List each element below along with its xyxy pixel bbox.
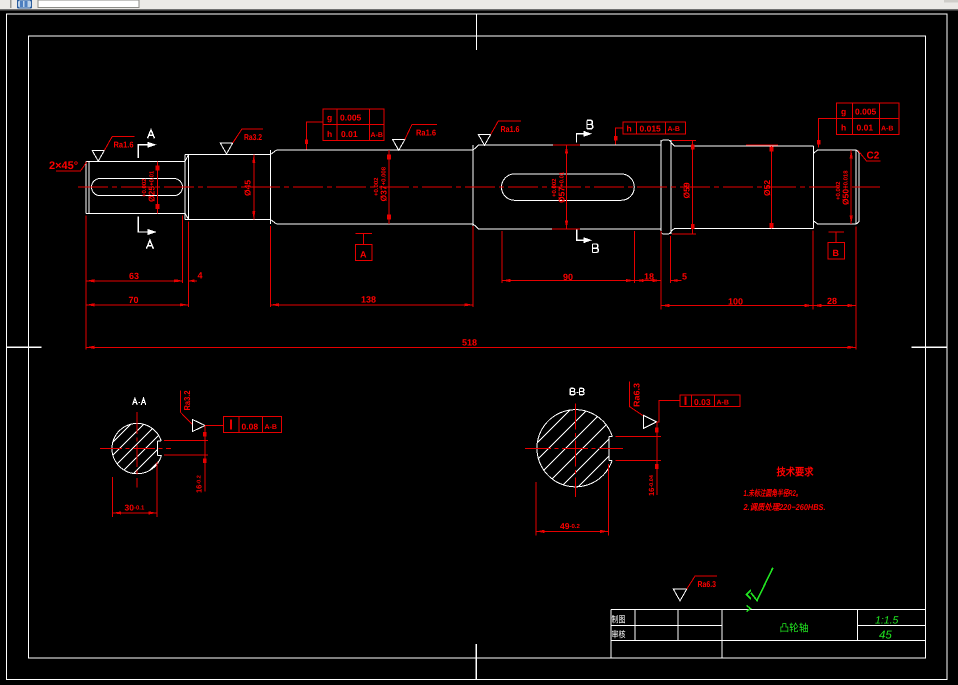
dim 90	[502, 272, 634, 282]
svg-text:g: g	[327, 113, 332, 123]
dim 138	[270, 295, 473, 307]
A-A keyway dim 16	[164, 426, 208, 493]
svg-text:凸轮轴: 凸轮轴	[780, 623, 809, 635]
svg-text:Ra6.3: Ra6.3	[632, 383, 642, 407]
svg-text:70: 70	[129, 295, 139, 305]
svg-text:Ø59: Ø59	[682, 182, 692, 198]
roughness Ra1.6 on S1	[92, 137, 134, 162]
roughness Ra1.6 on S4	[478, 121, 521, 145]
cutting plane A upper	[138, 130, 156, 158]
svg-text:A: A	[360, 250, 367, 260]
centering tick left	[7, 346, 42, 348]
svg-text:A-B: A-B	[881, 126, 893, 133]
shaft step face S2/S3	[269, 150, 271, 224]
dia dim S2 Ø45	[243, 155, 256, 220]
svg-text:100: 100	[728, 297, 743, 307]
dia dim S5	[746, 145, 778, 228]
svg-text:2.调质处理220−260HBS.: 2.调质处理220−260HBS.	[743, 502, 826, 512]
svg-text:0.005: 0.005	[855, 107, 877, 117]
svg-text:A-B: A-B	[717, 400, 729, 407]
svg-text:28: 28	[827, 296, 837, 306]
shaft section S4 outline	[473, 145, 661, 229]
dim 100	[661, 297, 813, 308]
svg-text:制图: 制图	[612, 614, 626, 624]
svg-text:Ra1.6: Ra1.6	[114, 140, 134, 150]
feature frame F1 (g/h top-left)	[305, 109, 384, 150]
green check mark	[747, 569, 773, 601]
chamfer label 2x45	[49, 160, 87, 172]
svg-text:18: 18	[644, 272, 654, 282]
toolbar input box	[38, 0, 139, 8]
svg-text:h: h	[327, 129, 332, 139]
svg-text:16-0.2: 16-0.2	[195, 475, 204, 493]
svg-text:Ra6.3: Ra6.3	[698, 579, 717, 589]
toolbar table icon	[18, 0, 32, 8]
roughness Ra3.2 on S2	[220, 129, 263, 154]
centering tick bottom	[475, 644, 477, 680]
svg-text:0.01: 0.01	[341, 129, 358, 139]
feature frame F2 (h 0.015 A-B)	[614, 122, 686, 145]
roughness Ra6.3 at B-B keyway (rotated)	[630, 382, 657, 429]
svg-text:B: B	[833, 248, 840, 258]
svg-text:h: h	[627, 123, 632, 133]
shaft step face S1/S2	[184, 155, 186, 220]
B-B centerline vertical	[575, 404, 577, 497]
shaft section S6 outline	[814, 150, 860, 224]
svg-text:138: 138	[361, 295, 376, 305]
flange left face	[660, 140, 662, 234]
svg-text:2×45°: 2×45°	[49, 160, 78, 172]
svg-text:技术要求: 技术要求	[777, 466, 814, 479]
cutting plane B lower	[577, 229, 599, 253]
dia dim S4	[551, 145, 568, 229]
keyway K1 slot	[92, 179, 183, 196]
B-B frame leader	[657, 401, 680, 422]
svg-text:+0.002: +0.002	[551, 178, 558, 197]
section B-B circle	[520, 380, 690, 533]
section A-A circle	[95, 395, 198, 492]
title block lines	[611, 610, 926, 658]
svg-text:4: 4	[198, 271, 203, 281]
svg-text:Ra3.2: Ra3.2	[182, 390, 192, 410]
roughness Ra3.2 at A-A keyway (rotated)	[180, 390, 205, 431]
centering tick top	[476, 14, 478, 50]
dim 63	[86, 271, 182, 282]
dia dim flange Ø59	[672, 140, 696, 234]
svg-text:518: 518	[462, 337, 477, 347]
svg-text:0.01: 0.01	[857, 123, 874, 133]
shaft section S1 outline	[86, 161, 185, 213]
extension lines below shaft	[86, 216, 856, 350]
shaft section S5 outline	[675, 146, 814, 228]
main centerline	[78, 186, 880, 188]
svg-text:0.005: 0.005	[340, 113, 362, 123]
section A-A label	[133, 398, 138, 405]
cutting plane A lower	[138, 217, 156, 249]
svg-text:16-0.04: 16-0.04	[647, 474, 656, 496]
section B-B label	[570, 388, 575, 395]
chamfer label C2	[858, 151, 881, 162]
keyway K2 slot	[502, 174, 635, 200]
dia dim S3	[373, 150, 391, 224]
svg-text:Ø45: Ø45	[243, 180, 253, 196]
dim 4	[174, 271, 203, 283]
svg-text:1:1.5: 1:1.5	[875, 615, 899, 627]
roughness Ra1.6 on S3	[393, 125, 437, 151]
shaft section S2 outline	[185, 155, 270, 220]
A-A frame leader	[205, 425, 223, 427]
flange outline	[661, 140, 675, 234]
shaft step face S3/S4	[472, 145, 474, 229]
feature frame F5 at B-B	[680, 395, 740, 407]
svg-text:0.03: 0.03	[694, 397, 711, 407]
cutting plane B upper	[577, 120, 593, 142]
dim 18	[635, 272, 661, 283]
feature frame F3 (g/h top-right)	[817, 103, 899, 147]
svg-text:0.08: 0.08	[242, 421, 259, 431]
dia dim S1	[141, 161, 159, 213]
B-B keyway dim 16	[616, 422, 661, 496]
svg-text:A-B: A-B	[371, 132, 383, 139]
svg-text:+0.002: +0.002	[373, 177, 380, 196]
svg-text:+0.002: +0.002	[835, 181, 842, 200]
svg-text:45: 45	[879, 630, 892, 642]
shaft step face S5/S6	[813, 146, 815, 228]
svg-text:+0.002: +0.002	[141, 178, 148, 197]
svg-text:Ra3.2: Ra3.2	[244, 132, 262, 142]
dim 70	[86, 295, 188, 306]
dim 28	[813, 296, 856, 307]
feature frame F4 at A-A	[223, 416, 281, 432]
svg-text:C2: C2	[867, 151, 880, 162]
B-B centerline horizontal	[525, 447, 623, 449]
shaft section S3 outline	[270, 150, 473, 224]
svg-text:审核: 审核	[612, 629, 626, 639]
datum A symbol	[356, 234, 373, 261]
svg-text:A-B: A-B	[265, 424, 277, 431]
toolbar strip	[0, 0, 958, 10]
dia dim S6 Ø50	[835, 150, 853, 224]
svg-text:1.未标注圆角半径R2。: 1.未标注圆角半径R2。	[744, 488, 802, 498]
green small arrow	[747, 606, 751, 612]
svg-text:A-B: A-B	[668, 126, 680, 133]
A-A centerline vertical	[136, 412, 138, 488]
svg-text:h: h	[841, 123, 846, 133]
roughness Ra6.3 bottom (others)	[673, 576, 716, 601]
svg-text:Ra1.6: Ra1.6	[501, 124, 520, 134]
svg-text:g: g	[841, 107, 846, 117]
dim 5	[671, 272, 688, 283]
svg-text:5: 5	[682, 272, 687, 282]
red edge stubs at dim endpoints	[552, 145, 580, 229]
svg-text:Ø52: Ø52	[762, 180, 772, 196]
svg-text:Ra1.6: Ra1.6	[416, 128, 436, 138]
A-A dim 30	[113, 462, 158, 517]
centering tick right	[912, 346, 947, 348]
datum B symbol	[828, 232, 845, 259]
B-B dim 49	[536, 464, 609, 536]
A-A centerline horizontal	[100, 448, 171, 450]
svg-text:90: 90	[563, 272, 573, 282]
dim 518	[86, 337, 856, 349]
svg-text:0.015: 0.015	[640, 123, 662, 133]
svg-text:63: 63	[129, 271, 139, 281]
